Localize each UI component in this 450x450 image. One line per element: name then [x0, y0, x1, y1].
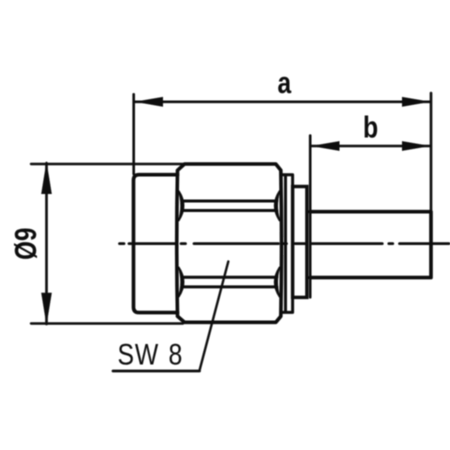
arrow a right — [402, 97, 431, 107]
extension line Ø9 top y=164 — [31, 163, 183, 165]
hex edge lens top-right — [275, 191, 280, 221]
extension line Ø9 bottom y=323.5 — [31, 322, 183, 324]
leader line SW 8 — [200, 262, 229, 371]
hex face boundary line upper-bottom — [184, 209, 277, 212]
arrow b left — [311, 141, 340, 151]
dimension line a y=101.5 — [135, 101, 430, 104]
arrow b right — [402, 141, 431, 151]
svg-text:Ø9: Ø9 — [8, 228, 43, 260]
svg-text:a: a — [277, 65, 291, 99]
gasket ring behind hex — [282, 175, 293, 313]
flange (rear body, Ø9) — [134, 175, 178, 313]
dimension line b y=145.8 — [311, 145, 430, 148]
svg-text:b: b — [363, 110, 378, 144]
arrow Ø9 up — [41, 162, 52, 195]
hex edge lens bottom-right — [275, 267, 280, 297]
wire: centerline dash-dot axis y=244 — [120, 242, 450, 245]
extension line left (dim a) x=133.7 — [132, 94, 135, 174]
extension line right (dims a,b) x=431 — [430, 93, 433, 211]
arrow a left — [135, 97, 164, 107]
shaft (cable entry barrel) — [310, 212, 431, 278]
hex edge lens bottom-left — [179, 267, 184, 297]
extension line b-left / barrel start x=310.3 — [309, 136, 312, 298]
hex face boundary line lower-bottom — [184, 285, 277, 288]
washer ring — [293, 187, 307, 298]
hex face boundary line upper-top — [184, 200, 277, 203]
svg-text:SW 8: SW 8 — [118, 337, 184, 371]
hex face boundary line lower-top — [184, 276, 277, 279]
leader underline SW 8 — [113, 370, 200, 373]
hex edge lens top-left — [179, 191, 184, 221]
dimension line Ø9 x=46.5 — [45, 163, 48, 324]
arrow Ø9 down — [41, 293, 52, 326]
hex nut body SW 8 — [177, 164, 282, 322]
